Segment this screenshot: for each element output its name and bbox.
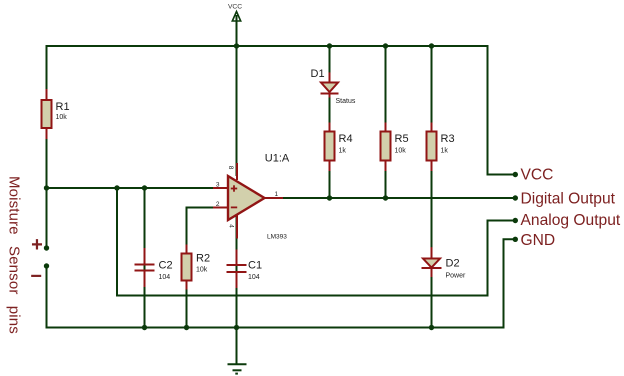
svg-text:8: 8: [227, 166, 234, 170]
svg-text:Status: Status: [336, 98, 356, 105]
svg-text:U1:A: U1:A: [265, 153, 290, 165]
svg-text:VCC: VCC: [228, 3, 242, 10]
svg-text:GND: GND: [521, 232, 556, 249]
svg-text:1: 1: [275, 191, 279, 198]
svg-text:D2: D2: [446, 258, 460, 270]
svg-text:C1: C1: [248, 260, 262, 272]
svg-text:10k: 10k: [196, 267, 208, 274]
svg-text:+: +: [31, 234, 43, 256]
svg-text:2: 2: [216, 201, 220, 208]
svg-text:10k: 10k: [56, 114, 68, 121]
svg-text:Power: Power: [446, 273, 467, 280]
svg-text:R1: R1: [56, 101, 70, 113]
svg-text:C2: C2: [159, 260, 173, 272]
svg-text:3: 3: [216, 182, 220, 189]
svg-text:R3: R3: [441, 133, 455, 145]
svg-text:Digital Output: Digital Output: [521, 191, 616, 208]
svg-text:R5: R5: [395, 133, 409, 145]
svg-text:D1: D1: [311, 68, 325, 80]
svg-text:R4: R4: [339, 133, 353, 145]
svg-text:−: −: [30, 266, 42, 288]
svg-text:R2: R2: [196, 253, 210, 265]
svg-text:4: 4: [228, 224, 235, 228]
svg-text:1k: 1k: [441, 148, 449, 155]
svg-text:VCC: VCC: [521, 167, 554, 184]
svg-text:Analog Output: Analog Output: [521, 212, 621, 229]
svg-text:LM393: LM393: [267, 234, 287, 241]
svg-text:Moisture Sensor pins: Moisture Sensor pins: [6, 176, 23, 334]
svg-text:10k: 10k: [395, 148, 407, 155]
svg-text:1k: 1k: [339, 148, 347, 155]
svg-text:104: 104: [248, 274, 260, 281]
svg-text:104: 104: [159, 274, 171, 281]
